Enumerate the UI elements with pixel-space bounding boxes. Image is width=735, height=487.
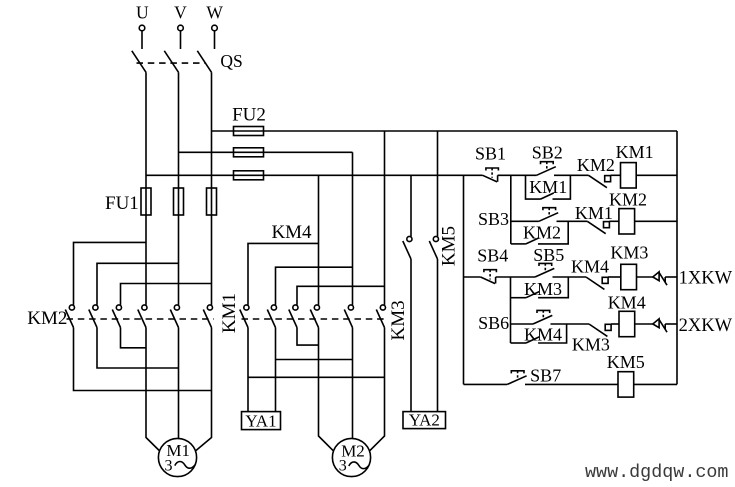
- wire row1 b: [554, 174, 589, 176]
- svg-text:KM5: KM5: [607, 352, 645, 372]
- wire row2 a: [511, 220, 539, 222]
- wire row4 d: [635, 323, 653, 325]
- electromagnet YA2: [403, 412, 446, 429]
- contactor KM2 contact 1: [69, 305, 74, 310]
- contactor KM5 contact 1: [407, 236, 412, 241]
- svg-text:KM3: KM3: [610, 243, 648, 263]
- branch wire down to row2: [510, 175, 512, 244]
- contactor KM3 contact 3: [380, 305, 385, 310]
- svg-text:KM2: KM2: [609, 189, 647, 209]
- svg-text:KM4: KM4: [608, 293, 646, 313]
- wire KM2 pole2 lower crossover: [97, 328, 179, 369]
- motor M2: [332, 438, 370, 476]
- contactor KM4 contact 1: [244, 305, 249, 310]
- wire row4 a: [511, 323, 534, 325]
- wire M2 phase a column: [318, 175, 320, 305]
- pushbutton SB7: [507, 376, 526, 385]
- wire M2 phase b column: [352, 152, 354, 305]
- bus wire L1 bottom / control feed: [146, 174, 483, 176]
- wire KM2 pole2 upper tap: [97, 263, 179, 305]
- wire row2 d: [635, 220, 677, 222]
- wire M2 phase a lower to M2: [319, 328, 334, 452]
- svg-text:W: W: [206, 2, 223, 22]
- wire phase L1 column lower to M1: [146, 328, 160, 452]
- fuse FU1c: [207, 188, 217, 215]
- wire KM2 pole3 lower crossover: [121, 328, 147, 348]
- svg-text:KM4: KM4: [271, 222, 312, 243]
- svg-text:KM4: KM4: [571, 257, 609, 277]
- wire KM5 pole2 lower: [437, 259, 439, 412]
- svg-text:1XKW: 1XKW: [679, 268, 733, 288]
- control left rail: [463, 175, 465, 384]
- wire M2 phase c lower to M2: [369, 328, 384, 452]
- svg-text:QS: QS: [220, 51, 242, 71]
- svg-text:KM3: KM3: [388, 300, 409, 340]
- svg-text:SB6: SB6: [478, 313, 509, 333]
- branch wire down to row4: [510, 277, 512, 343]
- wire row3 e: [637, 276, 653, 278]
- bus wire L3 top: [212, 130, 678, 132]
- electromagnet YA1: [242, 412, 281, 430]
- wire KM4 pole3 lower crossover: [297, 328, 319, 346]
- wire KM4 pole2 crossover branch: [276, 359, 353, 361]
- svg-text:KM1: KM1: [575, 203, 613, 223]
- fuse FU1b: [174, 188, 184, 215]
- wire phase L3 column upper: [211, 72, 213, 305]
- wire row1 c: [611, 174, 621, 176]
- wire row4 b: [551, 323, 590, 325]
- svg-text:SB1: SB1: [475, 143, 506, 163]
- wire M2 phase b lower to M2: [352, 328, 354, 439]
- svg-text:SB4: SB4: [477, 246, 508, 266]
- wire row2 c: [609, 220, 619, 222]
- contactor KM2 contact 2: [93, 305, 98, 310]
- contactor KM4 contact 3: [293, 305, 298, 310]
- svg-text:SB7: SB7: [530, 366, 561, 386]
- svg-text:KM3: KM3: [572, 334, 610, 354]
- svg-text:YA1: YA1: [245, 411, 276, 430]
- contactor KM2 contact 3: [116, 305, 121, 310]
- wire M2 phase c column: [384, 131, 386, 305]
- wire phase L2 column upper: [178, 72, 180, 305]
- svg-text:KM2: KM2: [577, 155, 615, 175]
- svg-text:KM5: KM5: [439, 226, 460, 266]
- disconnect switch QS blade 1: [132, 51, 146, 73]
- wire KM4 pole2 lower crossover: [275, 328, 277, 412]
- svg-text:V: V: [174, 2, 187, 22]
- wire KM2 pole1 lower crossover: [74, 328, 212, 391]
- fuse FU1a: [141, 188, 151, 215]
- svg-text:KM1: KM1: [529, 177, 567, 197]
- svg-text:3: 3: [339, 458, 347, 475]
- contactor KM1 contact 2: [174, 305, 179, 310]
- wire KM5 pole2 column upper: [437, 131, 439, 236]
- fuse FU2b: [234, 148, 264, 157]
- control right rail: [676, 131, 678, 384]
- wire KM4 pole3 upper tap: [297, 286, 385, 305]
- wire row2 b: [557, 220, 588, 222]
- wire row3 f: [665, 276, 677, 278]
- KM4-KM3 linkage dashed line: [242, 318, 386, 320]
- fuse FU2c: [234, 171, 264, 180]
- wire row3 c: [553, 276, 587, 278]
- wire phase L2 column lower to M1: [178, 328, 180, 439]
- svg-text:www.dgdqw.com: www.dgdqw.com: [585, 462, 728, 483]
- contactor KM1 contact 3: [207, 305, 212, 310]
- svg-text:KM2: KM2: [523, 222, 561, 242]
- wire KM5 pole1 lower: [410, 259, 412, 412]
- svg-text:KM2: KM2: [27, 308, 67, 329]
- wire row5 c: [634, 383, 677, 385]
- wire row1 d: [636, 174, 677, 176]
- svg-text:SB5: SB5: [533, 245, 564, 265]
- svg-text:KM1: KM1: [616, 142, 654, 162]
- wire phase L3 column lower to M1: [195, 328, 211, 452]
- contactor KM3 contact 2: [348, 305, 353, 310]
- wire row1 a: [498, 174, 537, 176]
- contactor KM5 contact 2: [433, 236, 438, 241]
- wire row3 b: [496, 276, 535, 278]
- wire phase L1 column upper: [145, 72, 147, 305]
- bus wire L2 middle: [179, 151, 353, 153]
- wire KM2 pole3 upper tap: [121, 284, 212, 305]
- wire row3 d: [608, 276, 621, 278]
- wire KM4 pole1 crossover branch: [248, 376, 385, 378]
- svg-text:FU2: FU2: [232, 104, 266, 125]
- svg-text:FU1: FU1: [105, 193, 139, 214]
- contactor KM1 contact 1: [142, 305, 147, 310]
- svg-text:2XKW: 2XKW: [679, 316, 733, 336]
- contactor KM4 contact 2: [271, 305, 276, 310]
- fuse FU2a: [234, 127, 264, 136]
- wire row3 a: [464, 276, 481, 278]
- wire KM4 pole1 upper tap: [248, 243, 319, 305]
- svg-text:KM1: KM1: [219, 293, 240, 333]
- wire row4 e: [665, 323, 677, 325]
- disconnect switch QS blade 2: [164, 51, 178, 73]
- wire row4 c: [611, 323, 619, 325]
- wire KM4 pole1 lower crossover: [247, 328, 249, 412]
- wire row5 a: [464, 383, 508, 385]
- svg-text:SB2: SB2: [532, 143, 563, 163]
- contactor KM3 contact 1: [314, 305, 319, 310]
- KM2-KM1 linkage dashed line: [67, 318, 215, 320]
- disconnect switch QS blade 3: [197, 51, 211, 73]
- wire KM2 pole1 upper tap: [74, 242, 147, 305]
- wire KM5 pole1 column upper: [410, 175, 412, 236]
- wire row5 b: [525, 383, 618, 385]
- svg-text:U: U: [136, 2, 149, 22]
- motor M1: [158, 438, 196, 476]
- svg-text:3: 3: [165, 458, 173, 475]
- wire KM4 pole2 upper tap: [276, 267, 353, 305]
- svg-text:YA2: YA2: [409, 411, 440, 430]
- QS linkage dashed bar: [137, 62, 206, 64]
- svg-text:SB3: SB3: [478, 209, 509, 229]
